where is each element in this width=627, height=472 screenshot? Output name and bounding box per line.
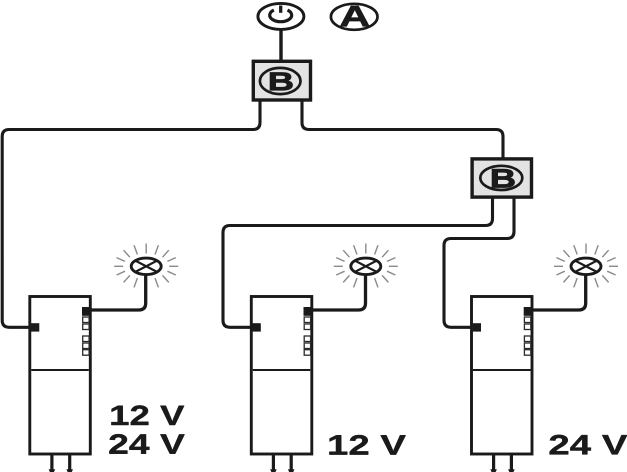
receiver B2 box: [472, 159, 531, 197]
transformer T2 left input terminal: [253, 323, 261, 331]
transformer T2 right output terminal: [304, 307, 312, 316]
transformer T1 left input terminal: [31, 323, 39, 331]
wire: lamp E3 to transformer T3: [532, 275, 586, 311]
transformer T1 terminal strip: [83, 317, 89, 323]
transformer T3 left input terminal: [473, 323, 481, 331]
wire: B2 left output to transformer T2: [223, 197, 493, 327]
lamp E3 rays: [554, 244, 618, 288]
lamp E2 bulb symbol: [351, 258, 381, 275]
transformer T3 mains pin 1: [492, 454, 495, 471]
value label 12 V for T1: [111, 405, 184, 425]
lamp E3 bulb symbol: [571, 258, 601, 275]
transformer T3 divider line: [473, 369, 531, 371]
transformer T3 mains pin 2: [510, 454, 513, 471]
transformer T1 mains pin 2: [68, 454, 71, 471]
transformer T3 terminal strip: [524, 317, 530, 323]
value label 24 V for T1: [109, 434, 184, 454]
receiver B1 box: [253, 61, 310, 100]
transformer T1 mains pin 1: [50, 454, 53, 471]
wire: lamp E1 to transformer T1: [89, 275, 146, 311]
lamp E1 rays: [114, 244, 178, 288]
label A (callout ellipse): [331, 4, 378, 30]
wire: switch A to receiver B1: [279, 30, 282, 61]
transformer T2 terminal strip: [304, 317, 310, 323]
wire: B1 right output to receiver B2: [302, 99, 503, 160]
transformer T3 body: [472, 297, 533, 472]
wire: B2 right output to transformer T3: [444, 197, 514, 327]
wire: lamp E2 to transformer T2: [311, 275, 366, 311]
transformer T1 right output terminal: [82, 307, 90, 316]
lamp E1 bulb symbol: [131, 258, 161, 275]
wire: B1 left output to transformer T1: [2, 99, 260, 327]
lamp E2 rays: [334, 244, 398, 288]
value label 12 V for T2: [329, 435, 405, 455]
transformer T2 divider line: [253, 369, 310, 371]
transformer T2 body: [251, 297, 311, 472]
transformer T3 right output terminal: [524, 307, 532, 316]
value label 24 V for T3: [550, 435, 627, 455]
transformer T2 mains pin 2: [290, 454, 293, 471]
transformer T1 divider line: [31, 369, 89, 371]
radio switch A (power button symbol): [258, 3, 304, 29]
transformer T1 body: [30, 297, 91, 472]
transformer T2 mains pin 1: [272, 454, 275, 471]
